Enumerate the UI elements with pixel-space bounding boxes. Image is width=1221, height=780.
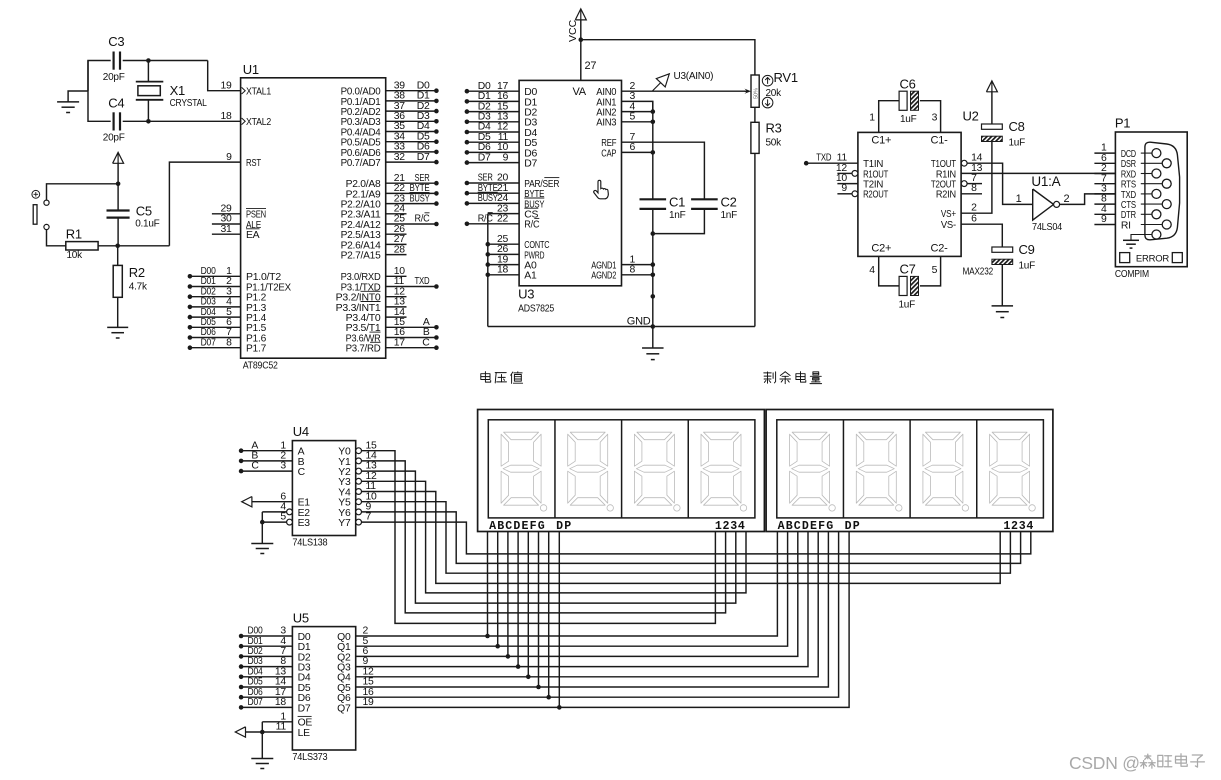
wire P1 pin 3 stub (1094, 184, 1115, 195)
wire U1 pin 21 P2.0 net SER (386, 173, 439, 186)
capacitor C6 1uF (899, 91, 907, 110)
label Chinese voltage-value under ADC (481, 372, 523, 384)
ground below U3 GND rail (642, 327, 664, 360)
svg-text:R2IN: R2IN (936, 190, 956, 201)
wire U4 pin 2 input net B (239, 451, 293, 464)
capacitor C9 1uF (992, 247, 1013, 252)
svg-text:1: 1 (869, 113, 875, 124)
svg-text:DP: DP (845, 520, 861, 533)
wire RV1 to R3 (754, 107, 756, 122)
svg-text:2: 2 (1064, 193, 1070, 205)
svg-text:Q7: Q7 (337, 703, 351, 714)
wire display DS1 segment B drop (495, 532, 500, 649)
svg-text:P1: P1 (1115, 116, 1130, 131)
svg-text:LE: LE (298, 728, 311, 739)
wire U1 pin 4 P1.3 net D03 (188, 297, 241, 310)
svg-text:U5: U5 (293, 611, 309, 626)
svg-text:U3: U3 (518, 287, 534, 302)
crystal X1 (136, 58, 207, 123)
svg-text:18: 18 (497, 265, 509, 276)
wire U1 pin 14 P3.4 stub (386, 307, 407, 318)
svg-text:C1-: C1- (931, 135, 949, 147)
svg-text:TXD: TXD (415, 276, 430, 287)
wire U1 pin 32 P0.7 net D7 (386, 152, 439, 165)
svg-text:C9: C9 (1019, 242, 1035, 257)
svg-text:D7: D7 (524, 159, 537, 170)
node VCC junction at U3 (579, 37, 584, 42)
wire U3 pin 27 VA to VCC (581, 40, 597, 81)
wire U5 OE/LE ground rail (260, 722, 265, 759)
display DS1 digit 3 seven-segment glyph (634, 432, 680, 511)
svg-text:COMPIM: COMPIM (1115, 268, 1149, 280)
wire U1 pin 11 P3.1 net TXD (386, 276, 439, 289)
svg-text:ERROR: ERROR (1136, 253, 1169, 264)
svg-text:4: 4 (869, 265, 875, 276)
P1 pin names (1121, 149, 1137, 231)
display DS1 digit 1 seven-segment glyph (501, 432, 547, 511)
wire U5 pin 16 Q6 segment bus (356, 532, 839, 698)
svg-text:D7: D7 (417, 152, 430, 163)
wire U2 pin 13 R1IN to P1 RXD (961, 163, 1115, 174)
wire U4 pin 15 Y0 to display digit (356, 440, 716, 623)
svg-text:CAP: CAP (601, 148, 616, 159)
wire AIN3 (622, 112, 656, 125)
svg-text:R1: R1 (66, 227, 82, 242)
wire inverter output to P1 TXD (1060, 194, 1116, 205)
svg-text:0.1uF: 0.1uF (135, 219, 159, 230)
node GND junction (651, 324, 656, 329)
svg-text:1uF: 1uF (899, 300, 916, 311)
wire U5 pin 18 D7 net D07 (239, 697, 293, 710)
wire U1 pin 24 P2.3 stub (386, 204, 407, 215)
svg-text:8: 8 (630, 265, 636, 276)
svg-text:C3: C3 (108, 34, 124, 49)
wire U3 pin 20 PAR/SER net SER (465, 173, 519, 186)
svg-text:17: 17 (394, 337, 406, 348)
wire U1 pin 31 stub (212, 224, 241, 235)
svg-text:BUSY: BUSY (478, 193, 498, 204)
wire U3 pin 23 CS to pulldown rail (488, 203, 519, 214)
svg-text:10k: 10k (67, 250, 84, 261)
wire U5 pin 9 Q3 segment bus (356, 532, 808, 668)
display DS2 digit 1 seven-segment glyph (790, 432, 836, 511)
wire U1 pin 22 P2.1 net BYTE (386, 183, 439, 196)
inverter gate U1:A 74LS04 (1016, 174, 1070, 233)
wire U2 pin 12 R1OUT stub (836, 163, 858, 177)
svg-text:VS-: VS- (941, 220, 956, 231)
wire AGND1 (622, 254, 656, 267)
svg-text:3: 3 (932, 113, 938, 124)
wire U5 pin 7 D2 net D02 (239, 646, 293, 659)
wire U2 pin 2 VS+ to C8 (961, 142, 992, 214)
label Chinese remaining-charge (764, 372, 822, 384)
wire U5 pin 8 D3 net D03 (239, 656, 293, 669)
svg-text:U4: U4 (293, 424, 309, 439)
wire U4 pin 3 input net C (239, 461, 293, 474)
wire U5 pin 4 D1 net D01 (239, 636, 293, 649)
wire AGND2 (622, 265, 656, 278)
svg-text:D7: D7 (298, 703, 311, 714)
wire U1 pin 25 P2.4 net R/C (386, 213, 439, 227)
wire U4 pin 14 Y1 to display digit (356, 451, 726, 613)
display DS1 digit 4 seven-segment glyph (701, 432, 747, 511)
svg-text:X1: X1 (170, 83, 185, 98)
wire RST net (169, 152, 240, 246)
wire P1 pin 4 stub (1094, 204, 1115, 215)
ground below U5 (251, 758, 273, 760)
svg-text:5: 5 (280, 512, 286, 523)
svg-text:8: 8 (226, 337, 232, 348)
svg-text:19: 19 (363, 697, 375, 708)
svg-text:22: 22 (497, 214, 509, 225)
svg-text:74LS373: 74LS373 (292, 752, 328, 763)
svg-text:P0.7/AD7: P0.7/AD7 (341, 158, 381, 169)
display DS2 digit 3 seven-segment glyph (923, 432, 969, 511)
wire U5 pin 1 OE to ground rail (262, 711, 292, 722)
svg-text:C2-: C2- (931, 243, 949, 255)
wire CAP (622, 142, 656, 155)
wire P1 pin 9 stub (1094, 214, 1115, 225)
svg-text:C5: C5 (136, 204, 152, 219)
svg-text:C4: C4 (108, 96, 124, 111)
wire U3 pin 24 BUSY net (465, 192, 519, 206)
svg-text:E3: E3 (298, 518, 311, 529)
svg-text:C8: C8 (1009, 119, 1025, 134)
svg-text:ADS7825: ADS7825 (518, 303, 554, 315)
svg-text:18: 18 (221, 111, 233, 122)
wire U4 pin 1 input net A (239, 440, 293, 453)
svg-text:D07: D07 (248, 697, 263, 708)
svg-text:DP: DP (556, 520, 572, 533)
wire U3 pin 11 D5 net (465, 132, 519, 145)
wire P1 pin 8 stub (1094, 194, 1115, 205)
wire U2 pin 3 C1- (920, 101, 941, 133)
wire U1 pin 33 P0.6 net D6 (386, 142, 439, 155)
IC U5 74LS373 body (292, 611, 355, 764)
svg-text:C1+: C1+ (871, 135, 891, 147)
svg-text:1234: 1234 (715, 520, 746, 533)
capacitor C2 1nF (691, 195, 737, 222)
wire U3 pin 10 D6 net (465, 142, 519, 155)
svg-text:C2+: C2+ (871, 243, 891, 255)
wire display DS1 segment D drop (516, 532, 521, 669)
capacitor C1 1nF (640, 195, 686, 222)
svg-text:20pF: 20pF (103, 133, 125, 144)
wire U4 pin 4 E2 to ground rail (262, 502, 292, 515)
svg-text:1nF: 1nF (721, 210, 738, 221)
wire U4 pin 7 Y7 to display digit (356, 512, 1031, 554)
potentiometer RV1 20k (745, 70, 798, 108)
svg-text:C: C (298, 467, 306, 478)
ground below R2 (107, 326, 128, 328)
svg-text:C1: C1 (669, 195, 685, 210)
wire C2 bottom to analog node (653, 209, 705, 234)
display DS1 7SEG-MPX4 body (478, 410, 765, 532)
wire XTAL2 net (88, 61, 241, 123)
wire U3 pin 25 to ground rail (486, 234, 520, 247)
wire U2 pin 10 T2IN stub (836, 173, 858, 184)
display DS1 digit 2 seven-segment glyph (568, 432, 614, 511)
wire P1 pin 1 stub (1094, 143, 1115, 154)
svg-text:32: 32 (394, 152, 406, 163)
svg-text:AIN3: AIN3 (596, 118, 616, 129)
svg-text:EA: EA (246, 230, 260, 241)
watermark CSDN senwang-dianzi (1069, 753, 1204, 773)
wire U4 pin 9 Y6 to display digit (356, 502, 1021, 564)
svg-text:74LS04: 74LS04 (1032, 222, 1063, 233)
wire U1 pin 38 P0.1 net D1 (386, 91, 439, 104)
ground near C3/C4 (57, 91, 88, 113)
svg-text:U2: U2 (963, 109, 979, 124)
wire U3 pin 18 to ground rail (486, 265, 520, 278)
svg-text:74LS138: 74LS138 (292, 538, 328, 549)
wire U5 pin 6 Q2 segment bus (356, 532, 798, 658)
svg-text:4.7k: 4.7k (129, 282, 148, 293)
wire U3 pin 22 R/C net (465, 213, 519, 227)
svg-text:2: 2 (971, 203, 977, 214)
wire P1 pin 6 stub (1094, 153, 1115, 164)
wire U5 pin 17 D6 net D06 (239, 687, 293, 700)
svg-text:Y7: Y7 (338, 518, 351, 529)
wire U1 pin 10 P3.0 stub (386, 266, 407, 277)
svg-text:VCC: VCC (567, 19, 579, 42)
svg-text:VA: VA (572, 86, 586, 98)
P1 ERROR indicator (1120, 253, 1183, 265)
wire U2 pin 8 R2IN stub (961, 183, 982, 194)
svg-text:D07: D07 (201, 337, 216, 348)
node reset-top junction (116, 182, 121, 187)
wire U1 pin 8 P1.7 net D07 (188, 337, 241, 350)
svg-text:C6: C6 (900, 77, 916, 92)
svg-text:1uF: 1uF (1019, 261, 1036, 272)
IC U4 74LS138 body (292, 424, 355, 549)
svg-text:R2: R2 (129, 265, 145, 280)
svg-text:28: 28 (394, 244, 406, 255)
svg-text:C2: C2 (721, 195, 737, 210)
wire U3 pin 9 D7 net (465, 152, 519, 165)
wire R3 bottom to GND rail (754, 153, 756, 326)
wire U1 pin 17 P3.7 net C (386, 337, 439, 350)
svg-text:5: 5 (630, 112, 636, 123)
power VCC arrow above C8 (986, 81, 997, 124)
svg-text:A1: A1 (524, 271, 537, 282)
svg-text:C7: C7 (900, 262, 916, 277)
wire display DS1 segment DP drop (557, 532, 562, 710)
wire U5 pin 2 Q0 segment bus (356, 532, 778, 637)
P1 DB9 connector face (1145, 142, 1180, 240)
wire U1 pin 30 stub (212, 214, 241, 225)
svg-text:ABCDEFG: ABCDEFG (489, 520, 546, 533)
wire U4 E2/E3 ground rail (260, 512, 265, 544)
resistor R2 4.7k (113, 246, 148, 328)
wire U1 pin 23 P2.2 net BUSY (386, 192, 439, 206)
wire U1 pin 15 P3.5 net A (386, 317, 439, 330)
wire REF to C2 (622, 132, 705, 199)
svg-text:6: 6 (630, 142, 636, 153)
wire U1 pin 36 P0.3 net D3 (386, 111, 439, 124)
svg-text:1nF: 1nF (669, 210, 686, 221)
wire U1 pin 27 P2.6 stub (386, 234, 407, 245)
ground below C9 (992, 265, 1014, 318)
wire U1 pin 3 P1.2 net D02 (188, 286, 241, 299)
wire U4 pin 10 Y5 to display digit (356, 491, 1011, 573)
capacitor C5 0.1uF (107, 184, 160, 246)
svg-text:RST: RST (246, 158, 262, 169)
wire GND rail (488, 316, 755, 328)
resistor R3 50k (751, 121, 782, 154)
wire U1 pin 16 P3.6 net B (386, 327, 439, 340)
U4 pin names (298, 447, 351, 529)
svg-text:R3: R3 (766, 121, 782, 136)
capacitor C4 20pF (103, 96, 125, 144)
U3 pin names (524, 86, 616, 282)
wire U5 pin 5 Q1 segment bus (356, 532, 788, 647)
wire display DS1 segment C drop (506, 532, 511, 659)
svg-text:1uF: 1uF (1009, 138, 1026, 149)
svg-text:ABCDEFG: ABCDEFG (778, 520, 835, 533)
wire U5 pin 19 Q7 segment bus (356, 532, 849, 709)
wire U1 pin 34 P0.5 net D5 (386, 131, 439, 144)
svg-text:18: 18 (275, 697, 287, 708)
svg-text:9: 9 (1101, 214, 1107, 225)
svg-text:1: 1 (1016, 193, 1022, 205)
ground below U4 (251, 543, 273, 545)
wire P1 pin 2 stub (1094, 163, 1115, 174)
svg-text:XTAL1: XTAL1 (246, 87, 271, 98)
wire U3 pin 19 to ground rail (486, 254, 520, 267)
svg-text:5: 5 (932, 265, 938, 276)
wire U5 pin 12 Q4 segment bus (356, 532, 819, 678)
wire U1 pin 37 P0.2 net D2 (386, 101, 439, 114)
U2 pin names (863, 135, 956, 255)
U5 pin names (298, 632, 351, 739)
wire U4 pin 11 Y4 to display digit (356, 481, 1001, 583)
svg-text:P2.7/A15: P2.7/A15 (341, 251, 381, 262)
svg-text:20pF: 20pF (103, 72, 125, 83)
wire U3 pin 26 to ground rail (486, 244, 520, 257)
svg-text:VS+: VS+ (941, 209, 956, 220)
voltage probe U3(AIN0) (653, 71, 714, 91)
wire U3 pin 15 D2 net (465, 101, 519, 114)
wire U1 pin 26 P2.5 stub (386, 224, 407, 235)
svg-text:50%: 50% (754, 88, 760, 99)
wire U5 pin 13 D4 net D04 (239, 666, 293, 679)
svg-text:D7: D7 (478, 152, 491, 163)
wire TXD net to U2 pin 11 T1IN (804, 153, 858, 166)
svg-text:9: 9 (226, 152, 232, 163)
wire U1 pin 13 P3.3 stub (386, 297, 407, 308)
svg-text:U1: U1 (243, 62, 259, 77)
svg-text:C: C (422, 337, 430, 348)
svg-text:27: 27 (585, 60, 597, 72)
wire U2 pin 9 R2OUT stub (837, 183, 857, 197)
wire U2 pin 5 C2- (920, 256, 941, 286)
svg-text:1uF: 1uF (900, 114, 917, 125)
svg-text:AGND2: AGND2 (591, 271, 616, 282)
svg-text:7: 7 (366, 512, 372, 523)
svg-text:9: 9 (503, 152, 509, 163)
svg-text:XTAL2: XTAL2 (246, 117, 271, 128)
display DS2 digit 4 seven-segment glyph (990, 432, 1036, 511)
capacitor C8 1uF (982, 124, 1003, 129)
wire U1 pin 7 P1.6 net D06 (188, 327, 241, 340)
IC U2 MAX232 body (858, 109, 993, 278)
svg-text:C: C (251, 461, 259, 472)
wire U1 pin 6 P1.5 net D05 (188, 317, 241, 330)
wire AIN2 (622, 101, 656, 114)
U1 pin names (242, 87, 382, 355)
wire U2 pin 6 VS- to C9 (961, 214, 1002, 247)
svg-text:R/C: R/C (478, 214, 494, 225)
wire display DS1 segment A drop (485, 532, 490, 639)
wire U4 pin 5 E3 to ground rail (262, 512, 292, 525)
wire U3 pin 21 BYTE net (465, 183, 519, 196)
capacitor C7 1uF (899, 276, 907, 295)
svg-text:1234: 1234 (1003, 520, 1034, 533)
wire U3 pin 16 D1 net (465, 91, 519, 104)
wire U3 pin 13 D3 net (465, 112, 519, 125)
svg-text:CRYSTAL: CRYSTAL (170, 98, 208, 109)
wire analog node vertical (651, 101, 656, 326)
wire U3 pin 17 D0 net (465, 81, 519, 94)
wire U2 pin 7 T2OUT stub (961, 173, 982, 187)
connector P1 COMPIM body (1115, 116, 1187, 280)
display DS2 digit 2 seven-segment glyph (856, 432, 902, 511)
ground inside P1 (1123, 235, 1152, 249)
svg-text:RV1: RV1 (774, 70, 798, 85)
svg-text:AT89C52: AT89C52 (243, 360, 278, 372)
wire U2 pin 4 C2+ (869, 256, 899, 286)
svg-text:GND: GND (627, 316, 651, 328)
svg-text:U3(AIN0): U3(AIN0) (674, 71, 714, 82)
wire U1 pin 12 P3.2 stub (386, 286, 407, 297)
svg-text:BUSY: BUSY (410, 193, 430, 204)
svg-text:P3.7/RD: P3.7/RD (346, 344, 381, 355)
mouse hand cursor (594, 180, 609, 199)
svg-text:6: 6 (971, 214, 977, 225)
wire U1 pin 1 P1.0 net D00 (188, 266, 241, 279)
wire U5 pin 11 LE with input arrow (235, 722, 292, 738)
svg-text:CSDN @: CSDN @ (1069, 753, 1140, 773)
power VCC arrow at reset (113, 152, 124, 184)
wire U4 pin 13 Y2 to display digit (356, 461, 736, 603)
wire U1 pin 39 P0.0 net D0 (386, 80, 439, 93)
wire U4 pin 6 E1 with input arrow (242, 491, 293, 507)
display DS2 7SEG-MPX4 body (766, 410, 1053, 532)
power VCC arrow above U3 (567, 9, 586, 42)
IC U3 ADS7825 body (518, 80, 621, 314)
capacitor C3 20pF (103, 34, 125, 83)
IC U1 AT89C52 body (241, 62, 386, 372)
wire U1 pin 28 P2.7 stub (386, 244, 407, 255)
svg-text:3: 3 (280, 461, 286, 472)
wire display DS1 segment F drop (536, 532, 541, 690)
svg-text:MAX232: MAX232 (963, 266, 994, 278)
svg-text:TXD: TXD (816, 153, 831, 164)
svg-text:R/C: R/C (524, 220, 540, 231)
wire U5 pin 14 D5 net D05 (239, 677, 293, 690)
wire U1 pin 2 P1.1 net D01 (188, 276, 241, 289)
svg-text:R2OUT: R2OUT (863, 190, 889, 201)
push button RESET (32, 184, 118, 246)
wire AIN0 to RV1 wiper (622, 81, 749, 92)
P1 internal pin-to-hole wires (1141, 153, 1162, 224)
resistor R1 10k (66, 227, 118, 262)
svg-text:8: 8 (971, 183, 977, 194)
svg-text:50k: 50k (766, 138, 783, 149)
wire U3 pin 12 D4 net (465, 122, 519, 135)
wire U5 pin 3 D0 net D00 (239, 626, 293, 639)
